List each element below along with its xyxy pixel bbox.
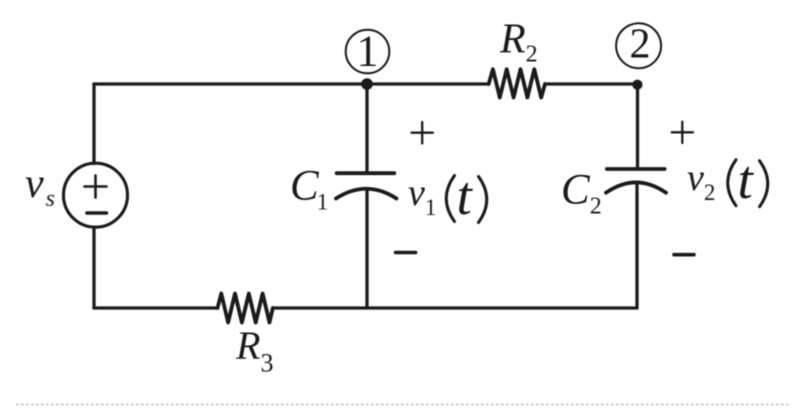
wire left vertical upper	[92, 84, 95, 164]
svg-text:2: 2	[630, 22, 651, 68]
minus sign for v1	[396, 251, 416, 255]
resistor R3	[218, 294, 273, 323]
wire bottom (left corner to R3)	[94, 306, 218, 309]
label v1(t) left parenthesis	[446, 176, 454, 222]
junction dot node 2	[632, 80, 642, 90]
svg-text:t: t	[457, 165, 474, 226]
svg-text:R3: R3	[235, 323, 273, 378]
svg-text:R2: R2	[499, 16, 538, 67]
label v2(t) left parenthesis	[728, 160, 736, 206]
label v1(t) right parenthesis	[479, 177, 487, 223]
label v2(t) right parenthesis	[760, 161, 768, 207]
svg-text:v2: v2	[687, 157, 715, 205]
junction dot node 1	[361, 78, 373, 90]
capacitor C1 curved plate	[336, 189, 397, 199]
node 1 circle	[346, 30, 390, 74]
wire node 1 to R2	[367, 82, 489, 85]
capacitor C1 top plate	[337, 171, 395, 175]
wire C2 bottom lead	[635, 184, 638, 309]
voltage source minus sign	[87, 211, 107, 215]
capacitor C2 curved plate	[606, 182, 666, 192]
svg-text:v1: v1	[408, 172, 436, 220]
capacitor C2 top plate	[607, 167, 665, 171]
wire left vertical lower	[92, 227, 95, 308]
resistor R2	[489, 69, 545, 97]
voltage source plus sign	[85, 176, 107, 198]
plus sign for v1	[412, 122, 433, 143]
wire C2 top lead	[636, 84, 639, 168]
svg-text:vs: vs	[25, 161, 55, 212]
svg-text:t: t	[738, 149, 755, 210]
voltage source VS circle	[64, 163, 128, 227]
svg-text:C2: C2	[561, 167, 602, 220]
wire R2 to node 2	[545, 82, 638, 85]
svg-text:C1: C1	[290, 163, 328, 215]
wire R3 to C2 bottom	[273, 306, 637, 309]
wire C1 top lead	[365, 84, 368, 172]
node 2 circle	[616, 23, 661, 68]
plus sign for v2	[672, 122, 693, 143]
minus sign for v2	[674, 253, 694, 257]
svg-text:1: 1	[357, 27, 379, 76]
wire top-left horizontal (source to node 1)	[94, 82, 367, 85]
wire C1 bottom lead	[365, 190, 368, 309]
dashed separator line at bottom	[16, 404, 790, 406]
